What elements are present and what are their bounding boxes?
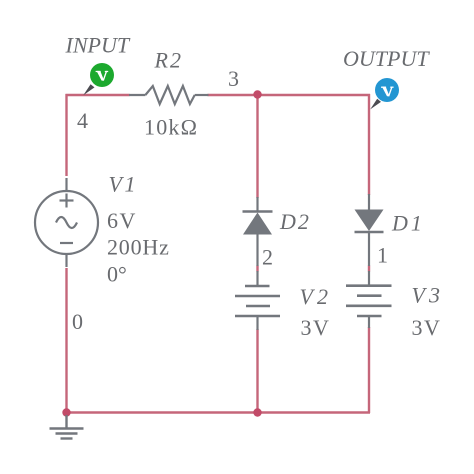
wire: middle vertical segment below V2 to bottom rail <box>256 329 258 413</box>
svg-text:INPUT: INPUT <box>65 33 131 58</box>
svg-text:V3: V3 <box>412 282 444 307</box>
junction ground node 0 dot <box>62 408 70 416</box>
wire: left vertical segment below V1 to ground node 0 <box>65 268 67 413</box>
probe INPUT circle <box>90 63 114 87</box>
AC source V1 <box>35 178 98 267</box>
diode D1 <box>355 194 384 266</box>
svg-text:3V: 3V <box>301 315 331 340</box>
svg-text:V2: V2 <box>300 284 332 309</box>
svg-text:4: 4 <box>77 108 88 133</box>
wire: right vertical segment below V3 to bottom rail <box>368 327 370 413</box>
svg-text:D2: D2 <box>279 209 311 234</box>
svg-text:R2: R2 <box>154 48 183 73</box>
ground <box>50 415 84 439</box>
svg-text:V1: V1 <box>109 172 138 197</box>
svg-text:1: 1 <box>377 243 388 268</box>
probe OUTPUT circle <box>375 78 399 102</box>
svg-text:0°: 0° <box>107 262 127 287</box>
battery V2 <box>235 271 280 330</box>
junction bottom middle dot <box>253 408 261 416</box>
junction node 3 dot <box>253 90 261 98</box>
diode D2 <box>243 197 273 266</box>
wire: top horizontal segment resistor to node 3 to output corner <box>208 94 371 96</box>
svg-text:3: 3 <box>228 66 239 91</box>
wire: middle vertical segment node 2 D2 to V2 <box>256 266 258 272</box>
svg-text:10kΩ: 10kΩ <box>144 115 198 140</box>
wire: left vertical segment node 4 <box>65 94 67 176</box>
probe OUTPUT letter v <box>381 87 394 97</box>
svg-text:200Hz: 200Hz <box>107 235 170 260</box>
wire: right vertical segment OUTPUT to D1 <box>368 94 370 195</box>
probe INPUT pointer <box>83 84 94 95</box>
svg-text:3V: 3V <box>412 315 442 340</box>
svg-text:0: 0 <box>72 309 83 334</box>
wire: top left horizontal segment node INPUT <box>66 94 130 96</box>
probe INPUT letter v <box>96 71 109 81</box>
svg-text:OUTPUT: OUTPUT <box>343 46 430 71</box>
wire: right vertical segment node 1 D1 to V3 <box>368 266 370 272</box>
svg-text:D1: D1 <box>391 211 425 236</box>
wire: middle vertical segment node 3 to D2 <box>256 94 258 198</box>
battery V3 <box>346 271 392 328</box>
probe OUTPUT pointer <box>370 99 381 110</box>
svg-text:6V: 6V <box>107 208 137 233</box>
svg-text:2: 2 <box>262 245 273 270</box>
wire: bottom horizontal ground rail <box>66 411 371 413</box>
resistor R2 <box>129 86 209 104</box>
